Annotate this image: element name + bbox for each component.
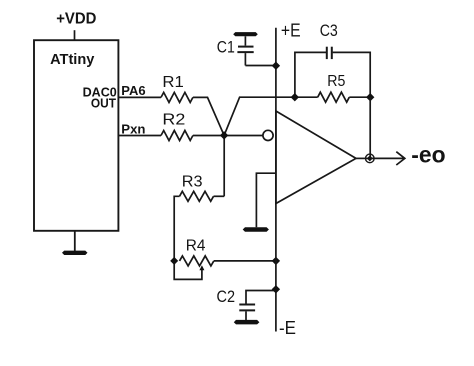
svg-text:R5: R5 [327,73,345,90]
node C2 junction on rail [272,285,280,293]
wire R4 to supply rail [214,260,276,262]
wire R4 wiper loop [174,261,202,280]
svg-text:R1: R1 [162,74,184,91]
wire output to arrow [370,157,404,159]
wire R3 left lead down to R4 [174,196,179,261]
wire summing node to op-amp inverting input [224,135,263,137]
ground at C2 [234,320,260,325]
wire op-amp output [356,157,370,159]
svg-text:+VDD: +VDD [56,11,96,28]
resistor R2 [161,131,193,141]
svg-text:R2: R2 [162,111,185,128]
node output junction [366,154,375,163]
capacitor C1 [233,32,276,65]
svg-text:R3: R3 [182,173,203,190]
svg-text:+E: +E [281,21,301,41]
wire summing node to R5 left node (feedback) [224,97,295,135]
node C1 junction on rail [272,62,280,70]
capacitor C3 with loop wiring [295,47,370,97]
wire PA6 pin to R1 [118,96,161,98]
pin label DAC0 OUT [83,86,117,111]
R4 wiper arrow [199,265,204,270]
ground at non-inverting input [243,227,269,232]
resistor R1 [161,92,193,102]
svg-text:-eo: -eo [411,142,445,168]
node R5 right junction [366,93,374,101]
svg-text:C1: C1 [217,38,235,57]
IC U1 ATtiny box [34,40,118,231]
wire non-inverting input [256,173,276,227]
op-amp inverting input bubble [263,130,273,140]
wire R2 to summing node [193,135,224,137]
wire R5 leads [295,96,318,98]
wire summing node down to R3 [223,136,225,197]
node R4 left junction [170,257,178,265]
wire Pxn pin to R2 [118,135,161,137]
resistor R4 trimmer [180,256,214,266]
svg-text:OUT: OUT [91,96,116,110]
svg-text:PA6: PA6 [121,84,145,98]
node R4 right junction on rail [272,257,280,265]
svg-text:C2: C2 [217,287,236,306]
resistor R5 [318,92,350,102]
ground ATtiny [62,231,88,255]
power rail +E to -E (vertical) [275,28,277,332]
svg-text:C3: C3 [320,21,338,40]
capacitor C2 [239,291,276,321]
resistor R3 [180,191,214,201]
wire +VDD stub to box [74,30,76,40]
output arrowhead [396,152,405,165]
wire feedback down to output node [369,97,371,158]
op-amp U2 triangle [276,111,356,204]
node R5 left junction [291,93,299,101]
wire R1 to summing node [193,97,224,135]
svg-text:R4: R4 [186,238,206,255]
svg-text:Pxn: Pxn [121,123,145,137]
node summing junction [220,131,228,139]
svg-text:-E: -E [279,318,296,338]
svg-text:ATtiny: ATtiny [50,51,95,68]
wire R3 right lead up [214,195,225,197]
